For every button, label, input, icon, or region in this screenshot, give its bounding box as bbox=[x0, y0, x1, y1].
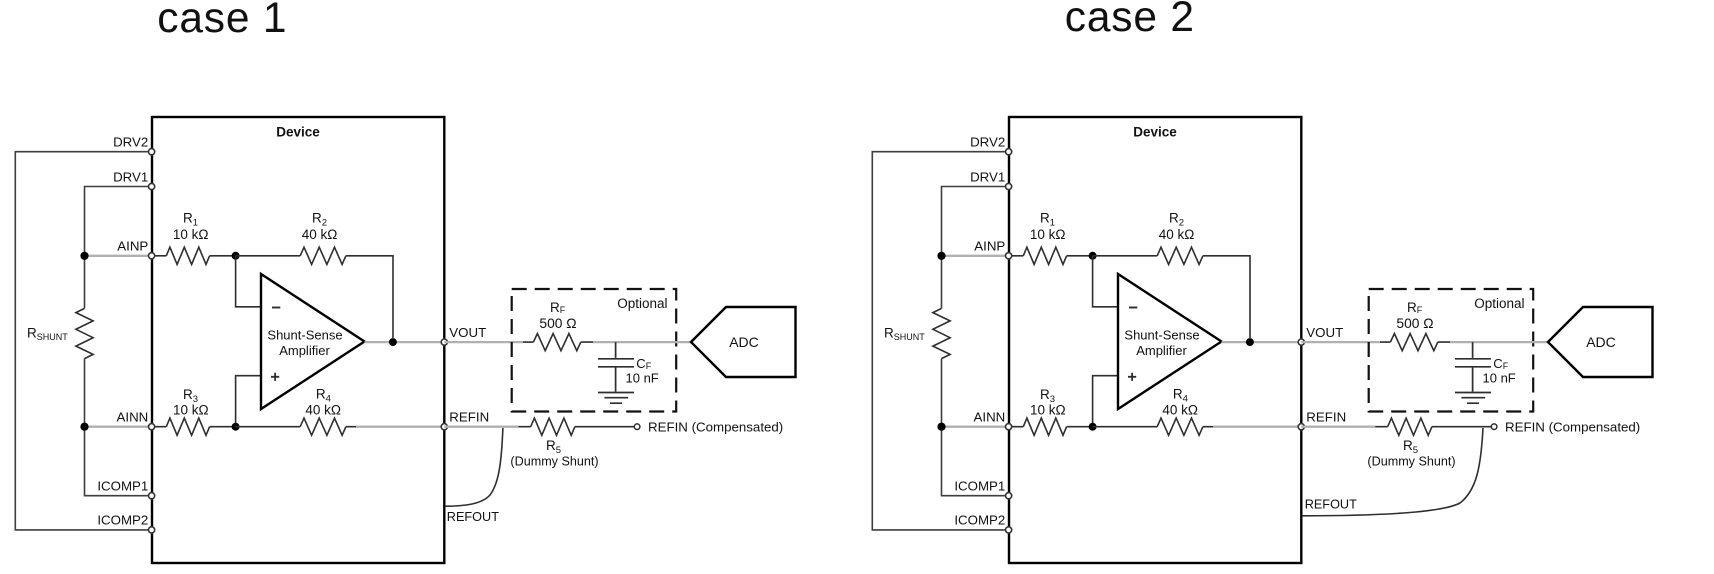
pin ICOMP2 port circle bbox=[149, 527, 155, 533]
capacitor CF bbox=[598, 342, 634, 392]
svg-text:R1: R1 bbox=[1040, 211, 1055, 229]
resistor R5 dummy shunt bbox=[518, 418, 634, 435]
svg-text:ICOMP1: ICOMP1 bbox=[97, 479, 148, 494]
wire AINN stub bbox=[85, 426, 153, 428]
device box U1 outline bbox=[152, 117, 444, 563]
pin REFIN port circle bbox=[441, 424, 447, 430]
resistor R3 bbox=[152, 418, 236, 435]
svg-text:REFIN (Compensated): REFIN (Compensated) bbox=[648, 420, 783, 435]
resistor R2 feedback bbox=[300, 247, 393, 338]
svg-text:case 2: case 2 bbox=[1065, 0, 1195, 41]
wire RF to ADC bbox=[1450, 341, 1548, 343]
pin AINN port circle bbox=[1006, 424, 1012, 430]
svg-text:500 Ω: 500 Ω bbox=[1396, 316, 1433, 331]
wire AINP stub bbox=[85, 255, 153, 257]
resistor R1 bbox=[1009, 247, 1093, 264]
resistor R5 dummy shunt bbox=[1375, 418, 1491, 435]
svg-text:REFIN: REFIN bbox=[449, 410, 489, 425]
pin AINP port circle bbox=[1006, 253, 1012, 259]
node junction dot AINP-RSHUNT bbox=[937, 252, 945, 260]
node REFIN compensated terminal circle bbox=[634, 424, 640, 430]
svg-text:40 kΩ: 40 kΩ bbox=[1162, 402, 1198, 417]
svg-text:10 nF: 10 nF bbox=[626, 371, 659, 386]
resistor RF bbox=[523, 334, 593, 351]
pin DRV1 port circle bbox=[1006, 183, 1012, 189]
svg-text:case 1: case 1 bbox=[157, 0, 287, 42]
svg-text:DRV2: DRV2 bbox=[970, 135, 1005, 150]
svg-text:REFOUT: REFOUT bbox=[447, 510, 499, 524]
ADC block bbox=[691, 307, 796, 377]
resistor R4 bbox=[1093, 418, 1215, 435]
node junction dot AINN input node bbox=[1089, 423, 1097, 431]
node junction dot AINP-RSHUNT bbox=[80, 252, 88, 260]
pin DRV2 port circle bbox=[1006, 149, 1012, 155]
svg-text:(Dummy Shunt): (Dummy Shunt) bbox=[510, 454, 598, 468]
svg-text:AINP: AINP bbox=[117, 239, 148, 254]
wire non-inverting input bbox=[1093, 376, 1118, 427]
svg-text:500 Ω: 500 Ω bbox=[539, 316, 576, 331]
pin ICOMP1 port circle bbox=[1006, 493, 1012, 499]
svg-text:R5: R5 bbox=[546, 438, 561, 456]
svg-text:40 kΩ: 40 kΩ bbox=[302, 227, 338, 242]
node junction dot R1-R2 inverting node bbox=[1089, 252, 1097, 260]
svg-text:AINN: AINN bbox=[117, 410, 149, 425]
op-amp plus pin mark bbox=[1128, 373, 1136, 381]
svg-text:RSHUNT: RSHUNT bbox=[27, 326, 68, 343]
device box U2 outline bbox=[1009, 117, 1301, 563]
svg-text:VOUT: VOUT bbox=[1306, 325, 1343, 340]
wire VOUT to RF bbox=[1301, 341, 1380, 343]
svg-text:ICOMP1: ICOMP1 bbox=[954, 479, 1005, 494]
svg-text:10 kΩ: 10 kΩ bbox=[1030, 227, 1066, 242]
svg-text:40 kΩ: 40 kΩ bbox=[1159, 227, 1195, 242]
wire op-amp output to VOUT bbox=[1222, 341, 1302, 343]
wire RF to ADC bbox=[593, 341, 691, 343]
ADC block bbox=[1548, 307, 1653, 377]
svg-text:DRV1: DRV1 bbox=[970, 169, 1005, 184]
pin ICOMP2 port circle bbox=[1006, 527, 1012, 533]
wire VOUT to RF bbox=[444, 341, 523, 343]
ground symbol bbox=[598, 393, 634, 404]
svg-text:10 kΩ: 10 kΩ bbox=[173, 403, 209, 418]
svg-text:(Dummy Shunt): (Dummy Shunt) bbox=[1367, 454, 1455, 468]
svg-text:10 kΩ: 10 kΩ bbox=[173, 227, 209, 242]
pin VOUT port circle bbox=[441, 339, 447, 345]
wire REFIN to R5 bbox=[1301, 426, 1375, 428]
node junction dot R1-R2 inverting node bbox=[232, 252, 240, 260]
svg-text:REFIN (Compensated): REFIN (Compensated) bbox=[1505, 420, 1640, 435]
dashed optional box bbox=[512, 289, 677, 412]
wire DRV2 to ICOMP2 outer loop bbox=[872, 152, 1009, 530]
svg-text:Device: Device bbox=[276, 125, 320, 140]
svg-text:R2: R2 bbox=[312, 211, 327, 229]
wire DRV1 to ICOMP1 loop bbox=[85, 187, 153, 496]
svg-text:Optional: Optional bbox=[1474, 296, 1524, 311]
dashed optional box bbox=[1369, 289, 1534, 412]
pin DRV2 port circle bbox=[149, 149, 155, 155]
svg-text:ICOMP2: ICOMP2 bbox=[97, 513, 148, 528]
resistor RSHUNT bbox=[933, 308, 950, 358]
pin AINN port circle bbox=[149, 424, 155, 430]
pin VOUT port circle bbox=[1298, 339, 1304, 345]
resistor R1 bbox=[152, 247, 236, 264]
wire node to R2 bbox=[236, 255, 301, 257]
svg-text:10 kΩ: 10 kΩ bbox=[1030, 403, 1066, 418]
svg-text:VOUT: VOUT bbox=[449, 325, 486, 340]
node junction dot output-feedback bbox=[389, 338, 397, 346]
node junction dot output-feedback bbox=[1246, 338, 1254, 346]
svg-text:DRV1: DRV1 bbox=[113, 169, 148, 184]
svg-text:REFOUT: REFOUT bbox=[1305, 498, 1357, 512]
wire node to R2 bbox=[1093, 255, 1158, 257]
svg-text:R1: R1 bbox=[183, 211, 198, 229]
wire REFOUT to REFIN net curve bbox=[445, 428, 503, 506]
node junction dot AINN-RSHUNT bbox=[937, 423, 945, 431]
svg-text:R5: R5 bbox=[1403, 438, 1418, 456]
svg-text:Shunt-Sense: Shunt-Sense bbox=[1124, 327, 1199, 342]
svg-text:RF: RF bbox=[1407, 300, 1423, 315]
wire non-inverting input bbox=[236, 376, 261, 427]
wire R4 to REFIN bbox=[1213, 426, 1301, 428]
resistor RF bbox=[1380, 334, 1450, 351]
op-amp U2 shunt-sense amplifier bbox=[1118, 274, 1222, 409]
svg-text:Optional: Optional bbox=[617, 296, 667, 311]
wire inverting input bbox=[236, 256, 261, 307]
capacitor CF bbox=[1455, 342, 1491, 392]
svg-text:ICOMP2: ICOMP2 bbox=[954, 513, 1005, 528]
node REFIN compensated terminal circle bbox=[1491, 424, 1497, 430]
pin REFIN port circle bbox=[1298, 424, 1304, 430]
wire op-amp output to VOUT bbox=[365, 341, 445, 343]
svg-text:ADC: ADC bbox=[1586, 334, 1616, 350]
svg-text:REFIN: REFIN bbox=[1306, 410, 1346, 425]
wire DRV2 to ICOMP2 outer loop bbox=[15, 152, 152, 530]
svg-text:RF: RF bbox=[550, 300, 566, 315]
op-amp minus pin mark bbox=[272, 307, 280, 309]
resistor RSHUNT bbox=[76, 308, 93, 358]
pin ICOMP1 port circle bbox=[149, 493, 155, 499]
op-amp minus pin mark bbox=[1129, 307, 1137, 309]
wire inverting input bbox=[1093, 256, 1118, 307]
svg-text:Amplifier: Amplifier bbox=[279, 343, 330, 358]
node junction dot AINN input node bbox=[232, 423, 240, 431]
svg-text:AINN: AINN bbox=[974, 410, 1006, 425]
wire AINP stub bbox=[942, 255, 1010, 257]
svg-text:R2: R2 bbox=[1169, 211, 1184, 229]
svg-text:Device: Device bbox=[1133, 125, 1177, 140]
wire DRV1 to ICOMP1 loop bbox=[942, 187, 1010, 496]
svg-text:10 nF: 10 nF bbox=[1483, 371, 1516, 386]
svg-text:ADC: ADC bbox=[729, 334, 759, 350]
svg-text:Shunt-Sense: Shunt-Sense bbox=[267, 327, 342, 342]
ground symbol bbox=[1455, 393, 1491, 404]
svg-text:40 kΩ: 40 kΩ bbox=[305, 402, 341, 417]
op-amp plus pin mark bbox=[271, 373, 279, 381]
wire REFOUT to REFIN compensated curve bbox=[1302, 428, 1483, 516]
svg-text:CF: CF bbox=[1493, 356, 1508, 371]
svg-text:CF: CF bbox=[636, 356, 651, 371]
svg-text:AINP: AINP bbox=[974, 239, 1005, 254]
op-amp U1 shunt-sense amplifier bbox=[261, 274, 365, 409]
wire REFIN to R5 bbox=[444, 426, 518, 428]
wire R4 to REFIN bbox=[356, 426, 444, 428]
svg-text:RSHUNT: RSHUNT bbox=[884, 326, 925, 343]
resistor R3 bbox=[1009, 418, 1093, 435]
resistor R4 bbox=[236, 418, 358, 435]
wire AINN stub bbox=[942, 426, 1010, 428]
pin DRV1 port circle bbox=[149, 183, 155, 189]
svg-text:DRV2: DRV2 bbox=[113, 135, 148, 150]
svg-text:Amplifier: Amplifier bbox=[1136, 343, 1187, 358]
pin AINP port circle bbox=[149, 253, 155, 259]
resistor R2 feedback bbox=[1157, 247, 1250, 338]
node junction dot AINN-RSHUNT bbox=[80, 423, 88, 431]
